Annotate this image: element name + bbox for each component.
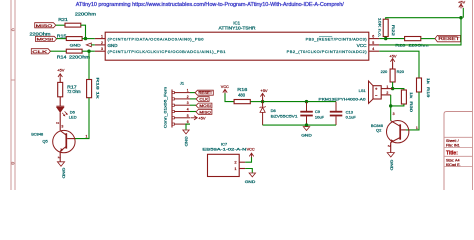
connector J1 pins [174, 92, 190, 94]
Q2 base pin [401, 129, 406, 131]
svg-text:PB2_(T0/CLKO/PCINT2/INT0/ADC2): PB2_(T0/CLKO/PCINT2/INT0/ADC2) [287, 49, 368, 54]
wire MISO to R21 [56, 24, 65, 26]
svg-text:10uF: 10uF [315, 114, 325, 119]
svg-text:5: 5 [187, 114, 189, 118]
power VCC at R16 symbol [223, 89, 227, 92]
svg-text:MISO: MISO [199, 109, 211, 114]
svg-text:+5V: +5V [57, 68, 65, 73]
IC7 pin 1 stub [239, 168, 245, 170]
zener D8 [262, 102, 264, 107]
wire J1 pin1 to RESET [190, 92, 195, 94]
svg-text:BC846: BC846 [371, 123, 384, 128]
svg-text:VCC: VCC [247, 147, 255, 151]
title block outline [444, 112, 473, 191]
connector J1 body [171, 90, 173, 128]
sheet frame left outer line [10, 0, 12, 190]
svg-text:RESET: RESET [438, 36, 460, 41]
global label MISO at J1 [196, 109, 212, 114]
wire VCC to R16 [225, 93, 234, 101]
wire J1 pin6 to GND [186, 124, 190, 130]
wire CLK node down to R18 [88, 51, 90, 79]
global label CLK [31, 49, 50, 54]
junction MISO/MOSI node [84, 37, 87, 40]
title block divider 2 [444, 146, 473, 148]
svg-text:0.1uF: 0.1uF [346, 114, 357, 119]
power +5V at rail symbol [260, 93, 264, 96]
svg-text:5: 5 [372, 41, 374, 45]
wire pin4 to R19 [379, 51, 419, 78]
svg-text:+5V: +5V [260, 88, 268, 93]
wire +5V to R20 [392, 62, 394, 69]
svg-text:D: D [12, 161, 15, 166]
switch IC7 box [208, 154, 240, 176]
LS1 pin1 [381, 88, 392, 90]
svg-text:MOSI: MOSI [37, 36, 54, 41]
junction Q2 collector node [389, 104, 392, 107]
IC7 pin 2 stub [239, 161, 245, 163]
title block divider 4 [444, 165, 473, 167]
svg-text:1: 1 [416, 126, 418, 130]
svg-text:+5V: +5V [458, 0, 466, 4]
global label RESET [435, 35, 461, 41]
junction +5V top right [459, 16, 462, 19]
svg-text:ATTINY10-TSHR: ATTINY10-TSHR [219, 25, 256, 30]
wire speaker node to R30 [393, 89, 404, 90]
resistor R19 [417, 78, 422, 92]
svg-text:LED: LED [69, 115, 77, 120]
svg-text:R14: R14 [57, 55, 67, 60]
svg-text:GND: GND [62, 168, 67, 179]
svg-text:D8: D8 [271, 108, 277, 113]
wire IC7 pin2 to VCC [245, 157, 251, 162]
svg-text:Size: A4: Size: A4 [446, 158, 460, 162]
IC1 pin 3 stub [95, 50, 105, 52]
wire +5V to R17 [59, 78, 61, 82]
wire J1 pin3 to MOSI [190, 104, 196, 106]
svg-text:Sheet: /: Sheet: / [446, 139, 460, 143]
wire +5V symbol to rail [262, 97, 264, 101]
svg-text:R15: R15 [57, 33, 67, 38]
svg-text:C9: C9 [315, 109, 321, 114]
svg-text:Conn_01x06_Fem: Conn_01x06_Fem [162, 86, 167, 128]
wire R18 to Q5 base [75, 98, 89, 139]
op IC1 box [105, 32, 369, 60]
svg-text:3: 3 [101, 47, 103, 51]
title block divider 3 [444, 155, 473, 157]
ground flag under C9 [303, 127, 309, 131]
power +5V for R17 symbol [58, 74, 62, 77]
svg-text:GND: GND [184, 136, 188, 146]
svg-text:+5V: +5V [198, 115, 206, 120]
sheet frame right line [472, 0, 474, 190]
global label RESET at J1 [195, 90, 213, 95]
Q5 emitter wire [59, 151, 61, 161]
wire R30 bottom to node [391, 104, 404, 106]
wire R22 top to +5V rail [386, 18, 461, 20]
svg-text:2: 2 [57, 157, 61, 159]
IC1 pin 6 name RESET overline [319, 36, 332, 38]
sheet frame left inner line [14, 0, 16, 190]
wire +5V down to VCC pin [379, 18, 461, 45]
svg-text:1k R19: 1k R19 [426, 78, 430, 98]
svg-text:R21: R21 [58, 17, 68, 22]
svg-text:4: 4 [372, 47, 374, 51]
svg-text:220: 220 [381, 69, 388, 74]
power VCC at IC7 symbol [249, 153, 253, 156]
ground flag at Q2 [387, 153, 394, 157]
capacitor C13 [335, 102, 337, 111]
power +5V at J1 pin5 symbol [194, 116, 197, 120]
global label MOSI at J1 [196, 103, 212, 108]
svg-text:MOSI: MOSI [199, 103, 211, 108]
svg-text:R18 1k: R18 1k [95, 78, 99, 99]
wire J1 pin2 to CLK [190, 98, 196, 100]
svg-text:2: 2 [386, 91, 388, 95]
power +5V at R20 symbol [390, 59, 394, 62]
connector J1 pin notches [172, 92, 174, 94]
wire R15 to IC pin1 [82, 38, 95, 40]
junction CLK node [87, 50, 90, 53]
wire R17 to D6 [59, 97, 61, 106]
wire R21 to pin1 junction [81, 25, 86, 38]
capacitor C9 [306, 102, 308, 111]
speaker LS1 [373, 86, 381, 99]
wire R14 to IC pin3 [82, 50, 95, 52]
svg-text:2: 2 [387, 145, 391, 147]
svg-text:PB3_(RESET/PCINT3/ADC3): PB3_(RESET/PCINT3/ADC3) [306, 37, 368, 42]
wire pin6 to R28 [379, 38, 404, 40]
svg-text:220Ohm: 220Ohm [75, 12, 97, 17]
resistor R18 [87, 80, 92, 98]
transistor Q2 body [387, 121, 409, 143]
svg-text:480: 480 [238, 92, 246, 97]
svg-text:GND: GND [108, 43, 118, 48]
LS1 pin2 [381, 94, 391, 96]
svg-text:2: 2 [55, 122, 59, 124]
wire R28 to RESET label [421, 38, 435, 40]
junction C9 bottom [305, 123, 308, 126]
IC1 pin 1 stub [95, 38, 105, 40]
ground flag at Q5 [57, 162, 64, 166]
svg-text:J1: J1 [180, 81, 185, 86]
GND flag at IC pin2 [86, 43, 91, 47]
svg-text:72 Ohm: 72 Ohm [67, 89, 81, 94]
svg-text:4: 4 [187, 108, 189, 112]
IC1 pin 6 stub [369, 38, 379, 40]
resistor R22 [383, 19, 388, 36]
svg-text:ATtiny10 programming https://w: ATtiny10 programming https://www.instruc… [76, 2, 345, 8]
svg-text:KiCad E.: KiCad E. [446, 163, 461, 167]
LED D6 [56, 105, 64, 107]
svg-text:3: 3 [61, 125, 63, 129]
svg-text:6: 6 [187, 120, 189, 124]
global label MOSI [36, 36, 57, 41]
wire rail C9 to C13 [307, 101, 337, 103]
svg-text:R20: R20 [397, 69, 405, 74]
title block divider 1 [444, 136, 473, 138]
svg-text:1: 1 [187, 89, 189, 93]
wire GND flag to IC pin2 [91, 44, 95, 46]
svg-text:GND: GND [389, 160, 394, 171]
svg-text:C: C [12, 27, 15, 32]
svg-text:6: 6 [372, 35, 374, 39]
wire CLK to R14 [51, 50, 67, 52]
power +5V top right symbol [459, 4, 463, 7]
ground flag at J1 [183, 130, 189, 134]
svg-text:BC848: BC848 [31, 132, 44, 137]
wire J1 pin4 to MISO [190, 111, 196, 113]
svg-text:10K n.c.: 10K n.c. [377, 18, 381, 38]
resistor R14 [66, 49, 82, 53]
global label MISO [35, 23, 56, 28]
svg-text:BZV55C5V1: BZV55C5V1 [271, 114, 299, 119]
wire MOSI to R15 [57, 38, 67, 40]
resistor R17 [58, 82, 63, 96]
IC1 pin 4 stub [369, 50, 379, 52]
svg-text:Q5: Q5 [42, 138, 48, 143]
wire +5V to junction [462, 8, 464, 18]
svg-text:CLK: CLK [32, 49, 47, 54]
svg-text:1: 1 [101, 35, 103, 39]
transistor Q5 body [53, 130, 75, 152]
Q2 emitter wire [390, 142, 392, 152]
resistor R30 [401, 90, 406, 104]
svg-text:2: 2 [101, 41, 103, 45]
svg-text:+5V: +5V [389, 53, 397, 58]
svg-text:1k R30: 1k R30 [409, 92, 413, 112]
IC1 pin 2 stub [95, 44, 105, 46]
svg-text:VCC: VCC [357, 43, 367, 48]
wire R22 bottom [385, 37, 387, 39]
svg-text:220Ohm: 220Ohm [30, 31, 52, 36]
ground flag at IC7 [249, 173, 255, 177]
junction +5V/D8 node [261, 100, 264, 103]
resistor R20 [390, 69, 395, 82]
sheet frame row divider tick [11, 79, 15, 81]
wire GND rail bottom [263, 124, 336, 126]
svg-text:2: 2 [187, 95, 189, 99]
svg-text:(PCINT1/TPICLK/CLKI/ICP0/OC0B/: (PCINT1/TPICLK/CLKI/ICP0/OC0B/ADC1/AIN1)… [108, 49, 227, 54]
junction speaker pin1 node [391, 87, 394, 90]
global label CLK at J1 [196, 97, 209, 102]
resistor R15 [66, 37, 82, 41]
svg-text:(PCINT0/TPIDATA/OC0A/ADC0/AIN0: (PCINT0/TPIDATA/OC0A/ADC0/AIN0)_PB0 [108, 37, 205, 42]
wire R19 to Q2 base [406, 92, 419, 130]
svg-text:GND: GND [301, 134, 312, 138]
Q5 base pin [67, 138, 75, 140]
svg-text:VCC: VCC [221, 85, 229, 89]
svg-text:R22: R22 [391, 25, 395, 36]
svg-text:Title:: Title: [446, 150, 458, 156]
svg-text:CLK: CLK [199, 97, 208, 102]
wire D6 to Q5 collector [59, 112, 61, 130]
svg-text:220Ohm: 220Ohm [69, 55, 91, 60]
svg-text:Q2: Q2 [376, 128, 382, 133]
wire R16 to rail [250, 101, 262, 103]
svg-text:MISO: MISO [36, 23, 53, 28]
wire speaker pin2 down [390, 95, 392, 106]
svg-text:3: 3 [393, 112, 395, 116]
svg-text:1: 1 [386, 85, 388, 89]
svg-text:LS1: LS1 [359, 88, 367, 93]
wire R20 to speaker node [392, 82, 394, 89]
svg-text:GND: GND [245, 180, 256, 184]
resistor R28 [405, 37, 421, 41]
junction R22 bottom [384, 37, 387, 40]
svg-text:3: 3 [187, 101, 189, 105]
junction C9 top [305, 100, 308, 103]
svg-text:GND: GND [70, 43, 81, 48]
svg-text:File: IN1: File: IN1 [446, 144, 460, 148]
wire node to Q2 collector [390, 106, 392, 121]
svg-text:1: 1 [86, 134, 88, 138]
resistor R21 [65, 23, 81, 27]
IC1 pin 5 stub [369, 44, 379, 46]
wire IC7 pin1 to GND [245, 169, 252, 173]
svg-text:EB59A-1-02-A-N: EB59A-1-02-A-N [202, 147, 246, 151]
wire rail D8 to C9 [263, 101, 307, 103]
resistor R16 [234, 100, 250, 104]
svg-text:IC7: IC7 [221, 141, 228, 146]
svg-text:PKM13EPYH4000-A0: PKM13EPYH4000-A0 [319, 97, 367, 102]
